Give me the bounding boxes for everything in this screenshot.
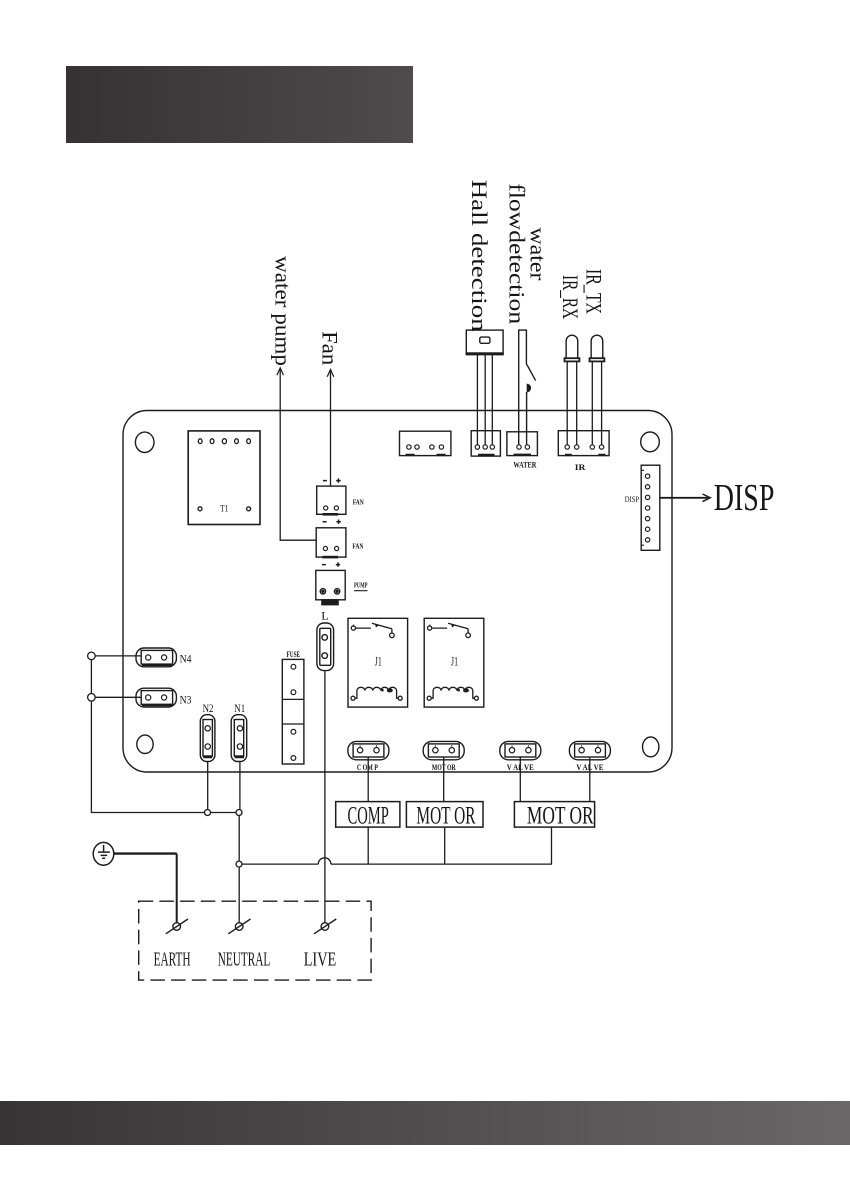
svg-text:FUSE: FUSE xyxy=(287,650,301,659)
svg-text:water: water xyxy=(526,227,551,281)
svg-text:MOT OR: MOT OR xyxy=(416,801,475,829)
svg-text:Fan: Fan xyxy=(317,331,342,365)
svg-text:water pump: water pump xyxy=(270,256,295,366)
svg-text:COMP: COMP xyxy=(348,801,389,829)
svg-text:N2: N2 xyxy=(203,701,214,715)
svg-text:T1: T1 xyxy=(220,503,229,513)
svg-text:N1: N1 xyxy=(234,701,245,715)
svg-text:LIVE: LIVE xyxy=(304,949,337,970)
svg-text:J1: J1 xyxy=(451,653,458,668)
svg-text:IR_TX: IR_TX xyxy=(582,269,607,314)
svg-text:IR_RX: IR_RX xyxy=(558,275,583,319)
svg-text:MOT OR: MOT OR xyxy=(527,801,594,829)
svg-text:IR: IR xyxy=(575,462,587,472)
svg-text:FAN: FAN xyxy=(353,499,364,507)
svg-text:NEUTRAL: NEUTRAL xyxy=(218,949,271,970)
svg-text:C OM P: C OM P xyxy=(357,763,378,772)
svg-text:N3: N3 xyxy=(180,692,192,706)
svg-text:PUMP: PUMP xyxy=(354,582,368,590)
svg-text:DISP: DISP xyxy=(714,477,775,519)
svg-text:L: L xyxy=(321,608,329,622)
svg-text:DISP: DISP xyxy=(625,494,640,504)
svg-text:J1: J1 xyxy=(375,653,382,668)
svg-text:Hall detection: Hall detection xyxy=(467,180,492,332)
svg-text:EARTH: EARTH xyxy=(154,949,191,970)
svg-text:FAN: FAN xyxy=(352,543,363,551)
svg-text:N4: N4 xyxy=(180,652,192,666)
svg-text:WATER: WATER xyxy=(513,460,536,469)
